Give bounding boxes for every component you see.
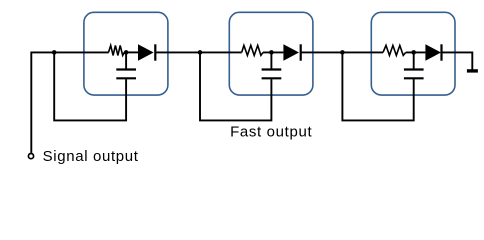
svg-text:Signal output: Signal output [43,148,139,165]
svg-text:Fast output: Fast output [230,123,312,140]
